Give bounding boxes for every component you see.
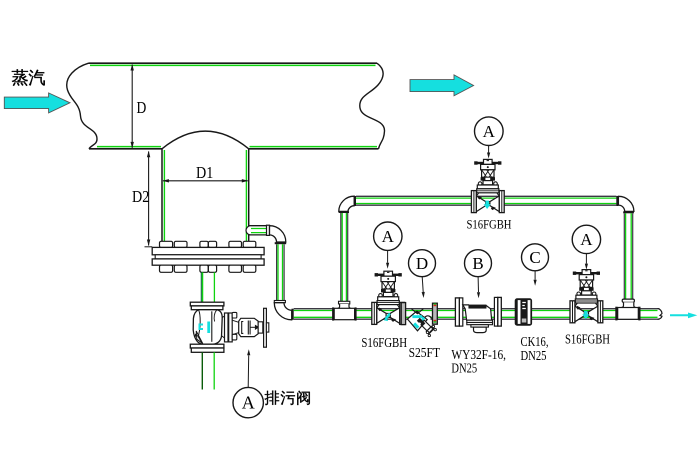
- elbow riser-to-lower-pipe: [274, 301, 285, 303]
- svg-text:DN25: DN25: [521, 348, 547, 363]
- svg-text:D1: D1: [196, 163, 213, 182]
- svg-text:CK16,: CK16,: [521, 334, 549, 349]
- leader to valve A1: [387, 251, 389, 263]
- pipe break line right: [360, 63, 385, 149]
- steam trap outlet neck to drain valve: [222, 316, 225, 338]
- wire: drop pipe below flange: [200, 272, 202, 302]
- steam trap bottom flange: [190, 344, 224, 348]
- branch dome arc: [162, 131, 249, 149]
- pipe break line left: [67, 63, 97, 149]
- wire: stub from branch right wall: [249, 226, 267, 235]
- flange gasket band: [155, 255, 261, 259]
- flange plate upper: [152, 247, 264, 254]
- check valve CK16 (C): [515, 298, 532, 325]
- svg-text:A: A: [580, 230, 593, 249]
- steam flow arrow inlet: [4, 93, 70, 113]
- text 排污阀 (drain valve): [265, 391, 280, 405]
- label circle A left: [374, 222, 402, 250]
- leader to valve A2: [585, 254, 587, 264]
- drain valve handwheel: [264, 308, 267, 347]
- branch right wall: [248, 149, 250, 247]
- strainer screen cap arc: [424, 316, 431, 323]
- steam header pipe bottom edge right: [249, 148, 379, 150]
- label circle A drain: [233, 387, 263, 417]
- flange pair bolts bottom: [160, 265, 173, 272]
- label circle B trap valve: [465, 250, 492, 277]
- drain valve gland: [258, 322, 263, 333]
- globe valve S16FGBH bypass: [471, 159, 504, 212]
- steam trap top flange: [190, 302, 224, 306]
- branch left wall: [161, 149, 163, 247]
- flange pair bolts top: [160, 241, 173, 247]
- label circle A right: [572, 225, 600, 253]
- globe valve S16FGBH left: [372, 271, 405, 324]
- dimension D2 line: [148, 152, 150, 246]
- text 蒸汽 (steam): [12, 69, 28, 86]
- drain valve flange pair: [225, 313, 229, 342]
- svg-text:S16FGBH: S16FGBH: [467, 218, 512, 232]
- svg-text:S25FT: S25FT: [409, 345, 440, 360]
- label circle C check: [522, 244, 549, 271]
- steam flow arrow outlet: [410, 75, 474, 96]
- elbow branch-to-riser: [270, 226, 286, 242]
- svg-text:A: A: [242, 393, 255, 413]
- condensate out arrow: [670, 313, 697, 319]
- steam trap cyan flow mark: [199, 324, 204, 331]
- strainer leg: [420, 320, 433, 333]
- tee fitting right: [622, 299, 634, 302]
- steam header pipe bottom edge left: [89, 148, 162, 150]
- tee fitting left (bypass riser base): [339, 301, 350, 304]
- svg-text:S16FGBH: S16FGBH: [361, 335, 407, 350]
- dimension D line: [131, 65, 133, 148]
- svg-text:A: A: [382, 227, 395, 246]
- elbow bypass right: [618, 196, 634, 211]
- leader to strainer: [422, 277, 423, 292]
- svg-text:DN25: DN25: [451, 360, 477, 375]
- flange plate lower: [152, 259, 264, 265]
- svg-text:D2: D2: [132, 187, 149, 206]
- svg-text:D: D: [416, 254, 428, 273]
- wire: bypass riser left: [340, 213, 342, 301]
- leader to check valve: [534, 271, 536, 280]
- svg-text:A: A: [483, 122, 496, 141]
- lower pipe end cap: [658, 309, 663, 320]
- svg-text:C: C: [529, 248, 540, 267]
- steam header pipe top edge: [89, 62, 378, 64]
- drain valve body: [239, 318, 259, 336]
- strainer vent notch: [411, 309, 423, 314]
- strainer diamond body: [407, 311, 427, 330]
- leader to drain valve: [247, 355, 250, 387]
- globe valve S16FGBH right: [570, 270, 603, 323]
- steam trap body: [193, 310, 222, 345]
- valve WY32F-16 (B): [455, 297, 501, 332]
- svg-text:D: D: [137, 98, 147, 117]
- wire: lower horizontal pipe: [294, 308, 660, 310]
- wire: drop riser: [276, 244, 278, 300]
- label circle A bypass: [475, 117, 504, 146]
- svg-text:S16FGBH: S16FGBH: [565, 332, 610, 347]
- Y-strainer S25FT: [401, 303, 437, 337]
- leader to bypass valve: [488, 146, 490, 153]
- svg-text:B: B: [472, 254, 483, 273]
- leader to valve B: [477, 277, 479, 293]
- wire: bypass horizontal pipe: [356, 195, 617, 197]
- strainer cyan flow marks: [412, 315, 422, 318]
- wire: drain pipe below trap: [201, 352, 203, 389]
- label circle D strainer: [409, 250, 436, 277]
- wire: bypass riser right: [623, 213, 625, 299]
- elbow bypass left: [339, 196, 354, 211]
- dimension D1 line: [163, 180, 248, 182]
